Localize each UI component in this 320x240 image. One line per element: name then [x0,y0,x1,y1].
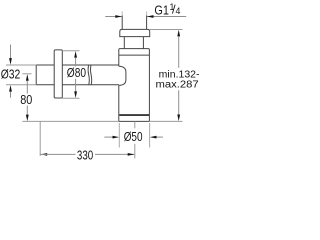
dimension D80 upper tail [75,58,77,67]
dimension 80 axis extension line [23,73,32,75]
pipe P2 break mark right curve [91,65,92,85]
pipe P2 horizontal outlet tube top edge (right of wall flange) [62,64,119,66]
nut N2 inlet connection bulge on body [119,66,126,85]
dimension 330 line left segment [41,153,76,155]
svg-text:4: 4 [176,6,181,16]
dimension G1 1/4 left arrowhead [115,15,122,18]
svg-text:Ø50: Ø50 [124,129,143,144]
dimension D50 left extension line [118,123,120,148]
svg-text:Ø32: Ø32 [1,66,21,81]
dimension 80 upper arrowhead [26,74,29,81]
svg-text:G1: G1 [154,3,169,18]
dimension 330 left arrowhead [41,153,48,156]
dimension G1 1/4 right tail [147,16,186,18]
dimension D32 bottom extension line [6,84,36,86]
pipe P2 horizontal outlet tube bottom edge (stub left of wall flange) [36,84,54,86]
centerline of body axis upper segment [134,121,136,128]
dimension D32 upper tail [10,45,12,59]
dimension 330 right arrowhead [128,153,135,156]
dimension D50 right extension line [149,123,151,148]
pipe P2 horizontal outlet tube top edge (stub left of wall flange) [36,64,54,66]
dimension D80 upper arrowhead [74,51,77,58]
dimension 80 upper tail [26,81,28,94]
dimension D50 right tail [157,136,164,138]
extension line bottom plane (right of body) [149,120,182,122]
dimension G1 1/4 right arrowhead [147,15,154,18]
pipe P2 break mark gap [89,66,91,85]
dimension G1 1/4 left tail [105,16,122,18]
dimension D50 left arrowhead [113,136,120,139]
svg-text:max.287: max.287 [156,79,200,90]
dimension D80 bottom extension line [62,97,79,99]
body B1 trap cup outline [119,49,150,122]
centerline of body axis lower segment [134,144,136,159]
dimension 330 left extension line [39,121,41,156]
dimension minmax upper arrowhead [177,30,180,37]
dimension minmax lower arrowhead [177,115,180,122]
svg-text:Ø80: Ø80 [67,65,86,80]
dimension D50 right arrowhead [150,136,157,139]
svg-text:80: 80 [20,92,32,107]
dimension D32 upper arrowhead [9,58,12,65]
dimension minmax lower tail [178,90,180,114]
svg-text:330: 330 [77,148,93,163]
dimension D80 lower arrowhead [74,91,77,98]
pipe P1 vertical inlet tube left edge [121,11,123,15]
dimension 80 lower arrowhead [26,115,29,122]
dimension 330 line right segment [95,153,134,155]
dimension D32 top extension line [6,64,36,66]
pipe P2 break mark left curve [88,65,89,85]
neck tube left edge [123,37,125,49]
nut N1 top coupling flange [120,29,150,36]
body B1 collar groove line [119,54,150,56]
dimension D32 lower tail [10,92,12,98]
neck tube right edge [142,37,144,49]
pipe P2 horizontal outlet tube bottom edge (right of wall flange) [62,84,119,86]
extension line bottom plane (left of body) [22,120,119,122]
pipe P1 vertical inlet tube right edge [146,11,148,15]
dimension 80 lower tail [26,106,28,115]
dimension D50 left tail [104,136,113,138]
pipe P2 open end cap [35,65,37,85]
dimension minmax top extension line [150,29,183,31]
dimension D80 lower tail [75,79,77,93]
dimension minmax upper tail [178,36,180,67]
wall flange F1 escutcheon disc [54,50,62,98]
dimension D32 lower arrowhead [9,85,12,92]
dimension D80 top extension line [62,50,79,52]
body B1 bottom shadow band [119,114,149,116]
